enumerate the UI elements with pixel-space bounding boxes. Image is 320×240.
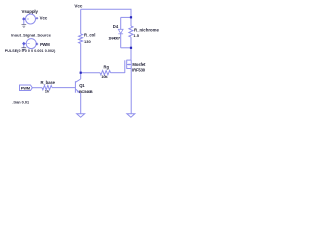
svg-text:R_base: R_base — [41, 80, 56, 85]
svg-text:Inout_Signal_Source: Inout_Signal_Source — [11, 32, 52, 37]
svg-text:D4: D4 — [113, 24, 119, 29]
svg-text:.tran 0.01: .tran 0.01 — [12, 101, 29, 105]
svg-text:130: 130 — [84, 39, 91, 44]
svg-text:PULSE(0 5 0 0 0 0.001 0.002): PULSE(0 5 0 0 0 0.001 0.002) — [5, 49, 56, 53]
svg-text:BC546B: BC546B — [79, 89, 93, 94]
svg-text:PWM: PWM — [21, 86, 31, 91]
svg-text:Vsupply: Vsupply — [22, 9, 39, 14]
svg-text:1.5: 1.5 — [133, 33, 139, 38]
svg-text:Mosfet: Mosfet — [132, 62, 146, 67]
svg-text:R_nichrome: R_nichrome — [134, 27, 159, 32]
svg-text:Vcc: Vcc — [74, 3, 83, 8]
svg-text:Rg: Rg — [104, 64, 110, 69]
svg-text:1N4007: 1N4007 — [108, 36, 121, 41]
svg-text:Vcc: Vcc — [40, 16, 48, 21]
svg-text:IRF530: IRF530 — [132, 68, 146, 73]
svg-text:R_col: R_col — [84, 33, 95, 38]
svg-text:1k: 1k — [45, 89, 50, 94]
svg-text:10k: 10k — [101, 74, 108, 79]
svg-text:PWM: PWM — [40, 42, 50, 47]
